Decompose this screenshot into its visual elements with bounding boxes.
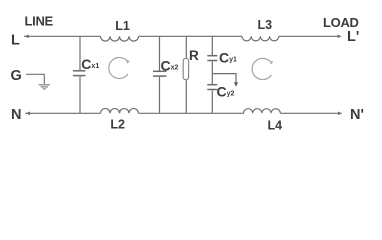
inductor L1 [101,36,139,41]
arrowhead earth [234,82,238,86]
svg-text:LOAD: LOAD [323,15,359,30]
capacitor Cy1 [207,36,217,84]
svg-text:L3: L3 [258,18,273,32]
inductor L4 [244,109,281,114]
svg-text:L1: L1 [115,19,130,33]
svg-text:L2: L2 [110,118,125,132]
wire bottom rail right segment (L4 to N') [280,112,338,114]
inductor L2 [101,109,139,114]
wire G lead [26,74,44,84]
svg-text:G: G [11,68,22,84]
resistor R [183,36,188,113]
svg-text:L: L [11,33,20,49]
ground [39,85,51,89]
wire bottom rail middle segment (L2 to L4) [139,112,244,114]
svg-text:R: R [189,48,199,63]
wire top rail middle segment (L1 to L3) [139,35,243,37]
arrowhead at L terminal [24,35,28,39]
wire bottom rail left segment (N to L2) [25,112,100,114]
wire top rail right segment (L3 to L') [279,35,338,37]
wire top rail left segment (L to L1) [24,35,101,37]
arrowhead at L' terminal [338,35,342,39]
arrowhead at N' terminal [338,112,342,116]
svg-text:N: N [11,107,21,123]
choke arrow circle 2 [252,58,273,79]
capacitor Cy2 [207,85,217,114]
arrowhead at N terminal [26,112,30,116]
svg-text:N': N' [350,107,364,123]
svg-text:L4: L4 [268,118,283,132]
wire Y-cap midpoint to earth arrow [212,74,236,83]
capacitor Cx2 [153,36,167,113]
svg-text:LINE: LINE [25,14,54,29]
svg-text:L': L' [347,29,359,45]
inductor L3 [242,36,279,41]
choke arrow circle 1 [109,58,130,79]
capacitor Cx1 [73,36,86,113]
